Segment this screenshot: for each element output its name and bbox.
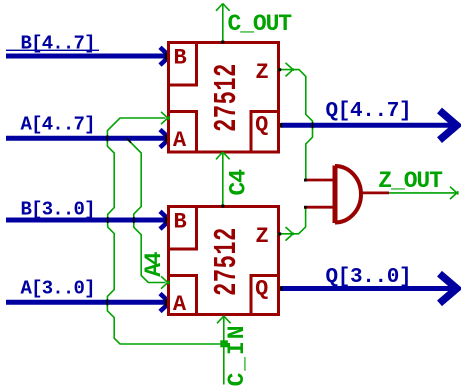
svg-text:Z: Z <box>256 224 269 249</box>
bus label Q[4..7] <box>326 100 412 123</box>
U2 pin box B <box>169 207 197 250</box>
svg-text:27512: 27512 <box>211 227 246 296</box>
svg-text:A: A <box>173 292 187 317</box>
junction C_IN <box>220 340 228 347</box>
svg-text:Z_OUT: Z_OUT <box>378 168 443 194</box>
U2 pin box A <box>169 276 197 315</box>
bus B[4..7] <box>6 47 170 65</box>
svg-text:A: A <box>173 128 187 153</box>
svg-text:C_IN: C_IN <box>224 324 250 387</box>
bus Q[3..0] <box>281 274 457 304</box>
svg-text:Q: Q <box>255 113 268 138</box>
U1 pin box Q <box>251 112 279 153</box>
U2 pin box Q <box>251 276 279 315</box>
wire Z U2 to gate <box>278 207 306 240</box>
bus entry dot A4 <box>127 139 131 143</box>
svg-text:Q[3..0]: Q[3..0] <box>326 266 412 289</box>
bus A[3..0] black tip <box>165 298 171 306</box>
pin dot gate B <box>304 206 307 209</box>
bus Q[4..7] <box>281 111 457 141</box>
and-gate U3 <box>304 166 389 224</box>
svg-text:Z: Z <box>256 60 269 85</box>
bus Q[4..7] black nub <box>276 123 283 128</box>
svg-text:B[4..7]: B[4..7] <box>21 33 95 55</box>
crossing wireZ x Q[4..7] <box>312 122 314 128</box>
pin dot Z U1 <box>278 68 281 71</box>
pin dot Z U2 <box>278 232 281 235</box>
bus label A[3..0] <box>21 277 95 299</box>
bus A[4..7] <box>6 130 170 148</box>
wire A4 <box>127 139 170 289</box>
svg-text:A[4..7]: A[4..7] <box>21 113 95 135</box>
svg-text:B: B <box>174 210 187 235</box>
pin dot gate A <box>304 179 307 182</box>
bus label B[4..7] <box>6 33 99 55</box>
U1 pin box B <box>169 43 197 86</box>
wire C_IN <box>217 316 231 385</box>
bus label A[4..7] <box>21 113 95 135</box>
svg-text:A4: A4 <box>141 251 167 277</box>
bus A[4..7] black tip <box>165 134 171 142</box>
svg-text:Q[4..7]: Q[4..7] <box>326 100 412 123</box>
wire carry C_IN to U1 <box>107 112 220 344</box>
wire C_OUT <box>216 4 230 43</box>
wire Z_OUT <box>389 187 459 199</box>
U1 pin box A <box>169 112 197 153</box>
crossing wire1 x A[3..0] <box>106 299 108 305</box>
pin dot C_OUT <box>221 41 224 44</box>
crossing wire1 x B[3..0] <box>107 217 109 223</box>
crossing wire1 x A[4..7] <box>106 135 108 141</box>
svg-text:27512: 27512 <box>211 63 246 132</box>
svg-text:Q: Q <box>255 277 268 302</box>
wire C4 <box>216 152 230 207</box>
svg-text:B[3..0]: B[3..0] <box>21 198 95 220</box>
bus label B[3..0] <box>21 198 95 220</box>
component U2 27512 body <box>169 207 279 315</box>
svg-text:C4: C4 <box>226 169 252 196</box>
bus B[3..0] black tip <box>165 216 171 224</box>
svg-text:A[3..0]: A[3..0] <box>21 277 95 299</box>
pin dot C4 <box>221 205 224 208</box>
component U1 27512 body <box>169 43 279 153</box>
bus label Q[3..0] <box>326 266 412 289</box>
bus A[3..0] <box>6 294 170 312</box>
svg-text:B: B <box>174 46 187 71</box>
bus Q[3..0] black nub <box>276 286 283 291</box>
svg-text:C_OUT: C_OUT <box>228 11 293 37</box>
crossing wireA4 x B[3..0] <box>133 217 135 223</box>
bus B[3..0] <box>6 211 170 229</box>
bus B[4..7] black tip <box>165 52 171 60</box>
wire Z U1 to gate <box>278 63 313 180</box>
